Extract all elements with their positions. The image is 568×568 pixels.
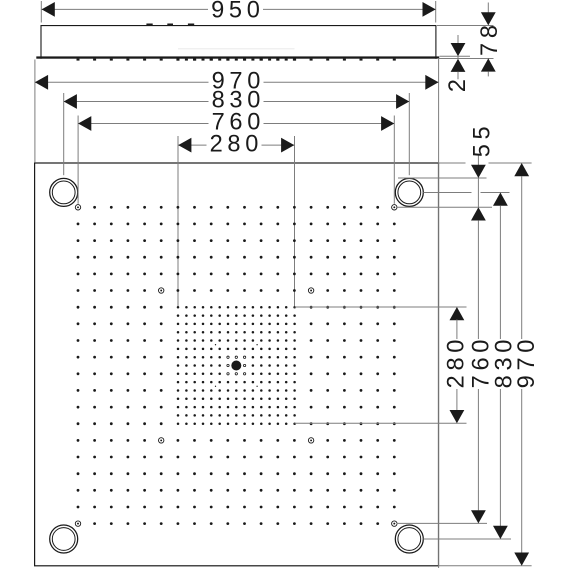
diagonal micro nozzles (215, 344, 258, 387)
dim 2 line (457, 56, 459, 59)
dim 2 arrow bottom (451, 59, 466, 72)
screw holes (75, 205, 397, 527)
dim 55 arrow bottom (471, 207, 486, 220)
dim 830 ext line right (408, 93, 410, 175)
ref line dense top right (295, 306, 467, 308)
dim 760 right arrow bottom (471, 510, 486, 523)
dim 78 arrow bottom (481, 58, 496, 71)
side view nozzle teeth (77, 59, 396, 61)
dim 830 arrow left (64, 94, 77, 109)
dim 830 right arrow bottom (493, 526, 508, 539)
svg-text:970: 970 (514, 335, 540, 388)
dim 2 tail top (457, 35, 459, 43)
dim 830 ext line left (63, 93, 65, 175)
side view housing (41, 26, 436, 59)
mounting circle top-right (395, 178, 423, 206)
center nozzle (231, 361, 241, 371)
dim 78 ref line bottom (437, 58, 494, 60)
svg-text:55: 55 (469, 122, 495, 158)
dim 970 ext line left (34, 60, 36, 163)
dim 760 ext line right (393, 116, 395, 204)
dim 2 ref line top (440, 55, 471, 57)
dim 760 line (78, 123, 208, 125)
ref line plate bottom right (439, 565, 532, 567)
dim 830 right line (499, 206, 501, 340)
dim 950 ext line right (435, 1, 437, 23)
dim 280 right arrow bottom (450, 410, 465, 423)
dim 830 arrow right (396, 94, 409, 109)
svg-text:950: 950 (211, 0, 264, 23)
dim 970 ext line right (438, 59, 440, 568)
dim 280 top arrow left (178, 138, 191, 153)
dim 2 tail bottom (457, 72, 459, 80)
ref line circle center right (423, 192, 471, 194)
dim 970 arrow right (425, 75, 438, 90)
side view spray face (36, 56, 439, 58)
ref line circle center bottom right (423, 538, 511, 540)
svg-text:280: 280 (210, 131, 263, 157)
ref line dense bottom right (295, 422, 467, 424)
dim 760 arrow left (78, 116, 91, 131)
svg-text:2: 2 (445, 74, 471, 92)
ref line plate top right (439, 162, 466, 164)
dim 970 right arrow top (514, 163, 529, 176)
svg-text:280: 280 (443, 335, 469, 388)
nozzle grid outer (77, 206, 396, 525)
dim 970 line (35, 81, 209, 83)
plate outline (35, 163, 439, 566)
mounting circle bottom-left (50, 525, 78, 553)
dim 280 top ext line left (177, 136, 179, 307)
dim 78 arrow top (481, 12, 496, 25)
mounting circle top-left (50, 178, 78, 206)
dim 55 line (477, 178, 479, 207)
side view recess line (178, 48, 295, 50)
dim 280 top ext line right (294, 136, 296, 307)
dim 760 arrow right (381, 116, 394, 131)
dim 55 arrow top (471, 165, 486, 178)
ref line circle top right (398, 177, 487, 179)
dim 970 arrow left (35, 75, 48, 90)
dim 970 right arrow bottom (514, 553, 529, 566)
svg-text:78: 78 (477, 20, 503, 56)
dim 78 ref line top (437, 25, 494, 27)
dim 950 arrow left (42, 2, 55, 17)
dim 830 right arrow top (493, 193, 508, 206)
dim 280 top arrow right (281, 138, 294, 153)
nozzle grid dense (177, 306, 296, 425)
dim 280 right line (456, 320, 458, 340)
dim 970 right line (521, 176, 523, 339)
dim 78 tail bottom (487, 71, 489, 76)
dim 760 right line (477, 220, 479, 339)
dim 950 line (42, 8, 208, 10)
dim 950 ext line left (40, 1, 42, 23)
dim 2 arrow top (451, 43, 466, 56)
dim 55 tail top (477, 156, 479, 166)
dim 280 right arrow top (450, 307, 465, 320)
dim 280 top line (178, 144, 206, 146)
dim 78 tail top (487, 3, 489, 13)
center ring nozzles (227, 356, 246, 375)
mounting circle bottom-right (395, 525, 423, 553)
dim 760 ext line left (77, 116, 79, 204)
dim 950 arrow right (423, 2, 436, 17)
side view inlet nubs (146, 24, 194, 26)
ref line screw row bottom right (397, 522, 488, 524)
ref line screw row top right (397, 206, 492, 208)
dim 830 line (64, 101, 209, 103)
